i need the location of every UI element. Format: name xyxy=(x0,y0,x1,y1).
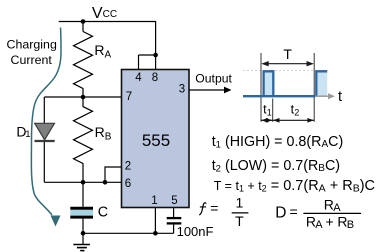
svg-text:A: A xyxy=(105,49,112,60)
svg-text:B: B xyxy=(347,219,354,231)
svg-text:C: C xyxy=(98,205,108,221)
svg-text:Charging: Charging xyxy=(7,38,57,52)
svg-text:A: A xyxy=(315,219,323,231)
svg-text:T: T xyxy=(283,46,292,62)
svg-text:t1 (HIGH) = 0.8(RAC): t1 (HIGH) = 0.8(RAC) xyxy=(212,134,344,151)
svg-text:D: D xyxy=(275,204,286,221)
svg-text:1: 1 xyxy=(267,108,272,118)
svg-text:+: + xyxy=(326,213,334,229)
svg-text:B: B xyxy=(105,132,112,143)
svg-text:t2 (LOW) = 0.7(RBC): t2 (LOW) = 0.7(RBC) xyxy=(212,158,340,175)
svg-text:V: V xyxy=(92,5,103,22)
svg-text:Output: Output xyxy=(195,71,232,85)
svg-text:8: 8 xyxy=(152,72,158,84)
svg-text:1: 1 xyxy=(25,129,30,140)
svg-text:6: 6 xyxy=(125,178,131,190)
svg-text:CC: CC xyxy=(103,9,117,20)
svg-text:5: 5 xyxy=(171,195,177,207)
svg-text:7: 7 xyxy=(126,91,132,103)
svg-text:A: A xyxy=(333,202,341,214)
svg-text:555: 555 xyxy=(142,131,170,150)
svg-text:100nF: 100nF xyxy=(177,224,214,239)
svg-text:4: 4 xyxy=(135,72,142,84)
svg-text:t: t xyxy=(338,89,342,105)
svg-text:2: 2 xyxy=(125,161,131,173)
svg-text:1: 1 xyxy=(236,195,244,211)
svg-text:1: 1 xyxy=(151,195,157,207)
svg-text:3: 3 xyxy=(179,84,185,96)
svg-text:T: T xyxy=(235,213,244,229)
svg-text:R: R xyxy=(94,42,104,58)
svg-text:=: = xyxy=(210,200,218,216)
svg-text:T = t1 + t2 = 0.7(RA + RB)C: T = t1 + t2 = 0.7(RA + RB)C xyxy=(214,178,375,194)
svg-text:=: = xyxy=(290,204,298,220)
svg-text:Current: Current xyxy=(11,53,53,67)
svg-text:R: R xyxy=(95,124,105,140)
svg-text:2: 2 xyxy=(294,108,299,118)
